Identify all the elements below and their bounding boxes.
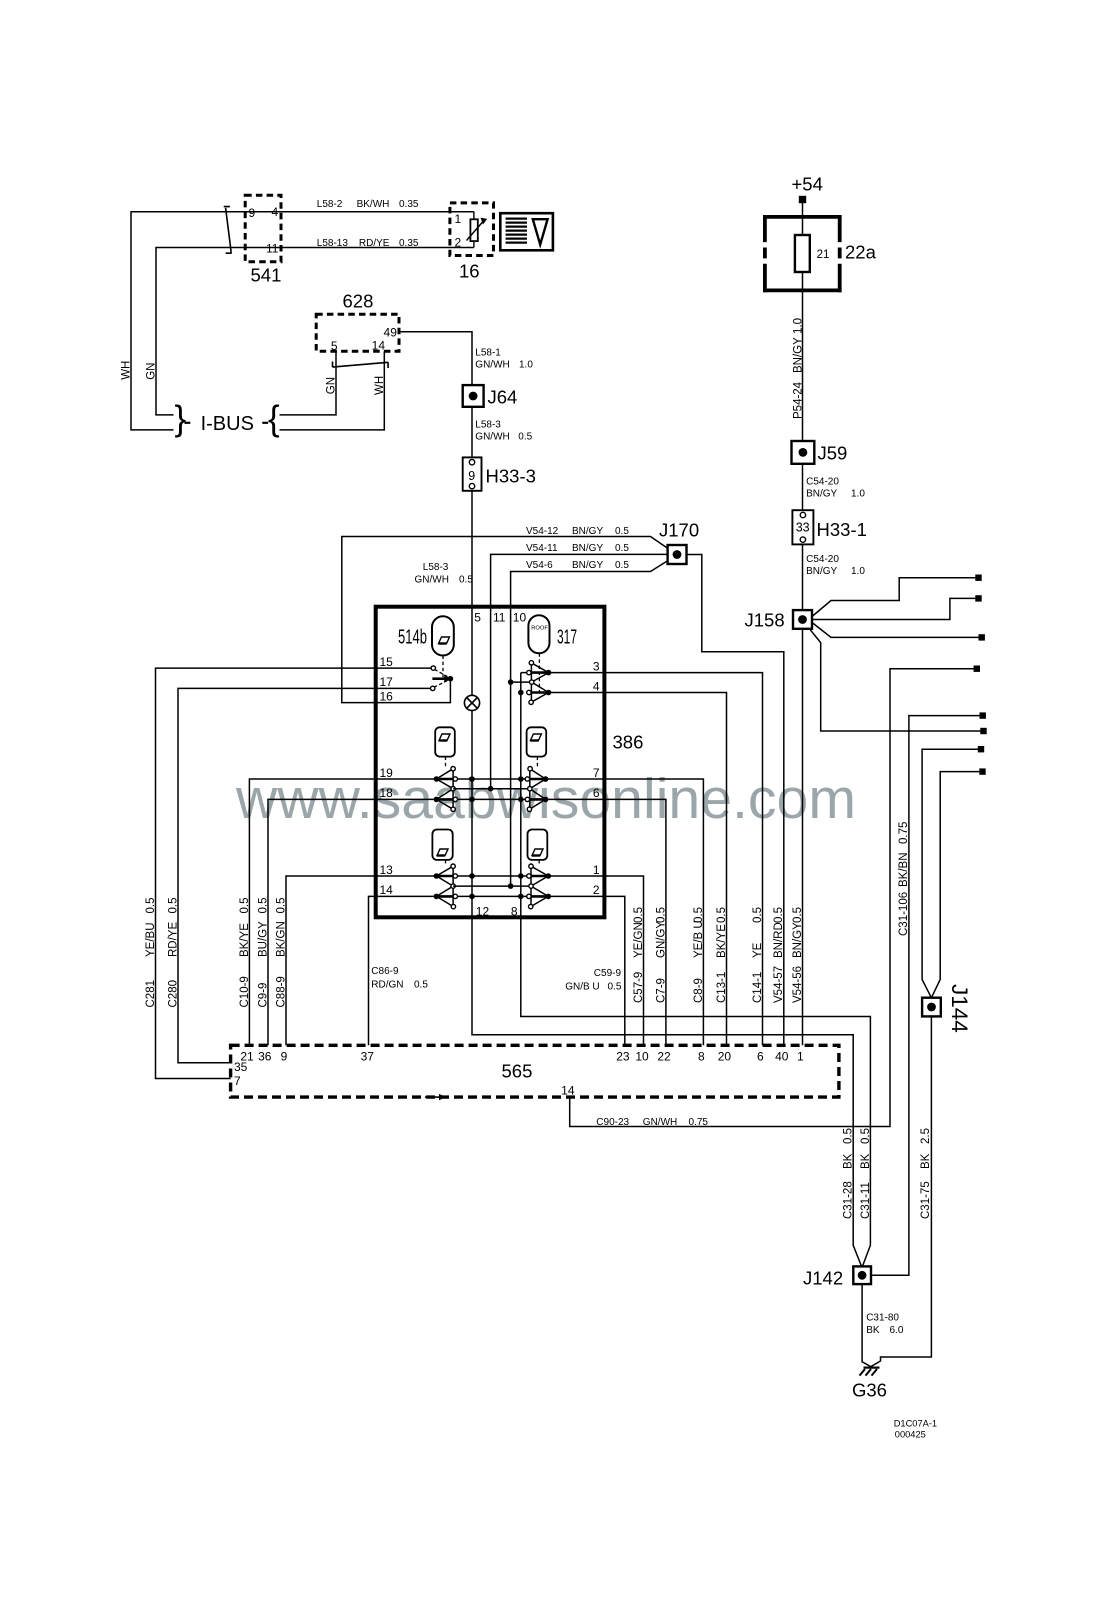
svg-text:BN/GY: BN/GY bbox=[792, 922, 804, 958]
svg-text:C88-9: C88-9 bbox=[276, 976, 288, 1007]
svg-text:18: 18 bbox=[380, 786, 394, 800]
svg-text:15: 15 bbox=[380, 655, 394, 669]
svg-text:C13-1: C13-1 bbox=[716, 972, 728, 1003]
svg-text:0.5: 0.5 bbox=[459, 575, 473, 586]
svg-text:21: 21 bbox=[817, 249, 830, 261]
wire from 628 pin 5 (GN) to I-BUS bbox=[280, 352, 337, 415]
terminal C90-23 bbox=[974, 666, 980, 672]
svg-text:C31-11: C31-11 bbox=[860, 1182, 872, 1219]
svg-text:0.5: 0.5 bbox=[633, 907, 645, 923]
svg-text:20: 20 bbox=[718, 1050, 732, 1064]
svg-text:9: 9 bbox=[281, 1050, 288, 1064]
svg-text:C31-28: C31-28 bbox=[843, 1181, 855, 1219]
svg-text:0.5: 0.5 bbox=[258, 898, 270, 914]
svg-text:RD/YE: RD/YE bbox=[359, 238, 390, 249]
actuator dashed link mid-left bbox=[445, 757, 447, 768]
svg-text:514b: 514b bbox=[398, 627, 427, 649]
svg-text:22: 22 bbox=[657, 1050, 671, 1064]
wire 386 pin 12 to J142 C31-28 BK bbox=[472, 917, 862, 1267]
svg-text:C7-9: C7-9 bbox=[655, 978, 667, 1003]
svg-text:3: 3 bbox=[593, 659, 600, 673]
svg-text:6: 6 bbox=[593, 786, 600, 800]
svg-text:BN/GY: BN/GY bbox=[806, 489, 837, 500]
svg-text:1.0: 1.0 bbox=[851, 566, 865, 577]
svg-text:C280: C280 bbox=[168, 980, 180, 1008]
svg-text:0.5: 0.5 bbox=[615, 543, 629, 554]
svg-text:BK: BK bbox=[860, 1153, 872, 1169]
wire J158 branch 2 to terminal bbox=[812, 598, 977, 619]
svg-text:317: 317 bbox=[557, 627, 577, 649]
svg-text:541: 541 bbox=[251, 265, 282, 286]
svg-text:BN/GY: BN/GY bbox=[572, 560, 603, 571]
svg-text:C86-9: C86-9 bbox=[371, 966, 399, 977]
connector H33-3 bbox=[463, 457, 482, 490]
switch contact 514b pin 15 throw bbox=[431, 666, 435, 670]
svg-text:BK: BK bbox=[920, 1153, 932, 1169]
svg-text:P54-24: P54-24 bbox=[792, 381, 804, 419]
roof switch feed from pin 10 bbox=[511, 681, 530, 683]
svg-text:2: 2 bbox=[593, 883, 600, 897]
switch 514b dashed arms bbox=[435, 669, 450, 677]
svg-text:C57-9: C57-9 bbox=[633, 972, 645, 1003]
svg-text:L58-3: L58-3 bbox=[423, 562, 449, 573]
wire 386 pin 4 to 565 pin 20 C13-1 BK/YE bbox=[549, 693, 727, 1046]
junction J144 bbox=[922, 998, 941, 1017]
svg-text:BK: BK bbox=[843, 1153, 855, 1169]
svg-text:1.0: 1.0 bbox=[519, 360, 533, 371]
svg-text:000425: 000425 bbox=[895, 1430, 926, 1440]
svg-text:6: 6 bbox=[757, 1050, 764, 1064]
svg-text:H33-3: H33-3 bbox=[486, 466, 536, 487]
svg-text:C59-9: C59-9 bbox=[594, 968, 622, 979]
svg-text:0.5: 0.5 bbox=[518, 432, 532, 443]
svg-text:0.5: 0.5 bbox=[414, 980, 428, 991]
svg-text:12: 12 bbox=[476, 904, 490, 918]
svg-text:{: { bbox=[268, 399, 280, 438]
svg-text:1: 1 bbox=[455, 212, 462, 226]
svg-text:V54-11: V54-11 bbox=[526, 543, 558, 554]
junction J64 bbox=[463, 385, 484, 407]
svg-text:GN/WH: GN/WH bbox=[643, 1117, 677, 1128]
junction J59 bbox=[792, 441, 815, 464]
wire from J170 to 565 pin 40 V54-57 BN/RD bbox=[687, 555, 784, 1046]
svg-text:BK/WH: BK/WH bbox=[357, 199, 390, 210]
svg-text:0.5: 0.5 bbox=[168, 898, 180, 914]
relay housing 22a box with gapped sides bbox=[763, 215, 842, 219]
junction dots on rows 19/18 lamp and pin8 columns bbox=[469, 776, 475, 782]
svg-text:5: 5 bbox=[331, 339, 338, 353]
svg-text:J144: J144 bbox=[947, 984, 972, 1033]
wire J158 branch 4 to terminal bbox=[810, 629, 982, 731]
svg-text:J158: J158 bbox=[745, 610, 785, 631]
svg-text:C31-80: C31-80 bbox=[866, 1313, 899, 1324]
svg-text:}: } bbox=[175, 399, 187, 438]
wire BN/GY main stem from +54 down to 565 pin 1 bbox=[802, 203, 804, 1045]
wire 386 pin 8 to J142 C31-11 BK bbox=[521, 917, 871, 1267]
svg-text:4: 4 bbox=[272, 205, 279, 219]
wire WH twisted-pair from 541 pin 9 to I-BUS brace bbox=[131, 212, 474, 430]
switch button 514b pill bbox=[432, 616, 454, 655]
svg-text:ROOF: ROOF bbox=[531, 626, 548, 632]
wire L58-3 GN/WH from J64 to H33-3 bbox=[471, 407, 473, 458]
junction J142 bbox=[853, 1266, 871, 1284]
svg-text:1: 1 bbox=[593, 863, 600, 877]
svg-text:14: 14 bbox=[372, 339, 386, 353]
svg-text:386: 386 bbox=[613, 732, 644, 753]
wire lamp column pin 5 to pin 12 inside 386 bbox=[471, 607, 473, 917]
window lifter switch unit 386 box bbox=[376, 607, 605, 918]
wire row 386 pin 13 to pin 1 and drops to 565 pins 9/10 C88-9 BK/GN C57-9 YE/GN bbox=[286, 876, 644, 1045]
svg-text:17: 17 bbox=[380, 675, 394, 689]
illumination symbol box bbox=[500, 213, 553, 250]
svg-text:GN/WH: GN/WH bbox=[415, 575, 449, 586]
svg-text:BK/YE: BK/YE bbox=[716, 924, 728, 958]
wire C31-106 BK/BN from terminal down to J142 right side bbox=[871, 716, 981, 1276]
svg-text:J142: J142 bbox=[803, 1268, 843, 1289]
wire pin 8 column from roof switch feed bbox=[521, 673, 527, 917]
svg-text:14: 14 bbox=[380, 883, 394, 897]
svg-text:5: 5 bbox=[474, 611, 481, 625]
wire row 386 pin 19 to pin 7 and drops to 565 pins 21/8 C10-9 BK/YE C8-9 YE/BU bbox=[249, 779, 703, 1045]
wire V54-11 BN/GY from 386 pin 11 to J170 bbox=[491, 554, 668, 606]
window icon button mid-right bbox=[527, 727, 547, 756]
terminal J144 right branch bbox=[979, 768, 985, 774]
window icon in 514b bbox=[439, 637, 450, 644]
window icon button mid-left bbox=[435, 727, 455, 756]
svg-text:11: 11 bbox=[493, 611, 506, 625]
svg-text:C14-1: C14-1 bbox=[752, 972, 764, 1003]
rheostat element in 16 bbox=[473, 212, 475, 248]
middle rail rows 13/14 with pin 10 junction bbox=[453, 885, 531, 887]
svg-text:16: 16 bbox=[459, 261, 480, 282]
terminal branch 2 bbox=[975, 595, 981, 601]
switch 514b pivot dot to pin 16 bbox=[377, 679, 451, 703]
wire C90-23 GN/WH from 565 pin 14 to terminal bbox=[570, 669, 975, 1127]
switch contact 514b pin 17 throw bbox=[431, 686, 435, 690]
wire J158 branch 1 to terminal bbox=[812, 578, 977, 617]
svg-text:BU/GY: BU/GY bbox=[258, 921, 270, 957]
terminal square +54 bbox=[799, 196, 806, 203]
wire C31-80 BK 6.0 from J142 to ground G36 bbox=[862, 1284, 871, 1367]
svg-text:49: 49 bbox=[384, 326, 398, 340]
svg-text:10: 10 bbox=[635, 1050, 649, 1064]
wire GN twisted-pair from 541 pin 11 to I-BUS brace bbox=[156, 248, 474, 415]
svg-text:40: 40 bbox=[775, 1050, 789, 1064]
svg-text:0.35: 0.35 bbox=[399, 238, 419, 249]
svg-text:D1C07A-1: D1C07A-1 bbox=[894, 1419, 937, 1429]
svg-text:0.5: 0.5 bbox=[860, 1128, 872, 1144]
wire pin 10 column to bottom middle rail bbox=[510, 607, 512, 886]
svg-text:WH: WH bbox=[120, 361, 132, 380]
wire row 386 pin 18 to pin 6 and drops to 565 pins 36/22 C9-9 BU/GY C7-9 GN/GY bbox=[268, 799, 666, 1045]
svg-text:0.5: 0.5 bbox=[773, 907, 785, 923]
svg-text:GN/WH: GN/WH bbox=[475, 432, 509, 443]
actuator dashed link bottom-right bbox=[538, 860, 540, 865]
svg-text:YE/B U: YE/B U bbox=[693, 920, 705, 958]
wire into J144 right from terminal bbox=[931, 772, 980, 998]
svg-text:C8-9: C8-9 bbox=[693, 978, 705, 1003]
svg-text:L58-13: L58-13 bbox=[317, 238, 349, 249]
svg-text:0.35: 0.35 bbox=[399, 199, 419, 210]
svg-text:0.5: 0.5 bbox=[145, 898, 157, 914]
svg-text:G36: G36 bbox=[852, 1380, 887, 1401]
svg-text:GN: GN bbox=[326, 377, 338, 394]
switch cluster rows 19/18 left bbox=[436, 769, 453, 810]
svg-text:0.5: 0.5 bbox=[792, 907, 804, 923]
fuse 21 inside 22a bbox=[795, 235, 810, 272]
svg-text:6.0: 6.0 bbox=[890, 1325, 904, 1336]
junction dots on rows 13/14 lamp and pin8 columns bbox=[469, 873, 475, 879]
wire 386 pin 3 to 565 pin 6 C14-1 YE bbox=[549, 673, 763, 1046]
svg-text:C90-23: C90-23 bbox=[596, 1117, 629, 1128]
svg-text:YE/BU: YE/BU bbox=[145, 922, 157, 957]
svg-text:4: 4 bbox=[593, 679, 600, 693]
svg-text:10: 10 bbox=[513, 611, 527, 625]
svg-text:BK/GN: BK/GN bbox=[276, 921, 288, 957]
svg-text:YE/GN: YE/GN bbox=[633, 922, 645, 958]
actuator dashed link mid-right bbox=[536, 757, 538, 768]
terminal branch 1 bbox=[975, 575, 981, 581]
wire V54-6 BN/GY from 386 pin 10 to J170 bbox=[511, 561, 668, 607]
svg-text:GN/WH: GN/WH bbox=[475, 360, 509, 371]
svg-text:BN/GY: BN/GY bbox=[572, 526, 603, 537]
svg-text:1.0: 1.0 bbox=[851, 489, 865, 500]
svg-text:37: 37 bbox=[361, 1050, 375, 1064]
svg-text:19: 19 bbox=[380, 766, 394, 780]
svg-text:1.0: 1.0 bbox=[792, 318, 804, 334]
switch cluster rows 7/6 right bbox=[529, 769, 545, 810]
svg-text:11: 11 bbox=[266, 242, 279, 256]
svg-text:J59: J59 bbox=[818, 443, 848, 464]
svg-text:YE: YE bbox=[752, 942, 764, 958]
connector H33-1 bbox=[792, 510, 813, 544]
window icon button bottom-right bbox=[528, 830, 548, 860]
svg-text:8: 8 bbox=[698, 1050, 705, 1064]
svg-text:0.75: 0.75 bbox=[689, 1117, 709, 1128]
svg-text:23: 23 bbox=[616, 1050, 630, 1064]
svg-text:0.5: 0.5 bbox=[752, 907, 764, 923]
svg-text:C31-75: C31-75 bbox=[920, 1181, 932, 1219]
svg-text:GN: GN bbox=[146, 363, 158, 380]
svg-text:L58-1: L58-1 bbox=[475, 348, 501, 359]
svg-text:35: 35 bbox=[234, 1060, 248, 1074]
dimmer rheostat 16 dashed box bbox=[450, 203, 494, 256]
wire J158 branch 3 to terminal bbox=[812, 623, 980, 638]
svg-text:7: 7 bbox=[593, 766, 600, 780]
actuator dashed link bottom-left bbox=[445, 860, 447, 865]
svg-text:WH: WH bbox=[374, 376, 386, 395]
svg-text:9: 9 bbox=[249, 206, 256, 220]
svg-text:C10-9: C10-9 bbox=[239, 976, 251, 1007]
arrow marker on 565 bottom edge bbox=[425, 1096, 440, 1098]
switch cluster rows 1/2 right bbox=[531, 866, 549, 906]
svg-text:BK/BN: BK/BN bbox=[898, 852, 910, 887]
svg-text:I-BUS: I-BUS bbox=[201, 413, 254, 435]
bus connector 628 dashed box bbox=[316, 314, 399, 351]
svg-text:J64: J64 bbox=[488, 387, 518, 408]
svg-text:0.5: 0.5 bbox=[239, 898, 251, 914]
svg-text:9: 9 bbox=[468, 469, 475, 483]
svg-text:GN/GY: GN/GY bbox=[655, 921, 667, 958]
svg-text:0.5: 0.5 bbox=[716, 907, 728, 923]
svg-text:0.5: 0.5 bbox=[615, 560, 629, 571]
svg-text:L58-2: L58-2 bbox=[317, 199, 343, 210]
svg-text:C9-9: C9-9 bbox=[258, 983, 270, 1008]
wire 386 pin 15 to 565 pin 7 C281 YE/BU bbox=[156, 668, 434, 1078]
svg-text:14: 14 bbox=[561, 1084, 575, 1098]
wire L58-3 GN/WH from H33-3 to 386 pin 5 bbox=[471, 491, 473, 607]
junction J170 bbox=[668, 545, 687, 564]
svg-text:GN/B U: GN/B U bbox=[565, 982, 599, 993]
terminal branch 3 bbox=[979, 634, 985, 640]
wire V54-12 BN/GY from 386 pin 16 to J170 bbox=[342, 537, 668, 703]
svg-text:0.75: 0.75 bbox=[898, 822, 910, 844]
wire C31-75 BK 2.5 from J144 to ground G36 bbox=[871, 1016, 932, 1366]
wire into J144 left from terminal bbox=[922, 749, 979, 998]
svg-text:33: 33 bbox=[796, 521, 810, 535]
svg-text:BK/YE: BK/YE bbox=[239, 923, 251, 957]
switch 514b wiper arrow bbox=[432, 677, 445, 680]
illumination triangle bbox=[533, 219, 548, 244]
svg-text:BN/RD: BN/RD bbox=[773, 922, 785, 958]
svg-text:BN/GY: BN/GY bbox=[572, 543, 603, 554]
svg-text:BN/GY: BN/GY bbox=[792, 337, 804, 373]
switch cluster rows 13/14 left bbox=[436, 866, 453, 906]
svg-text:V54-57: V54-57 bbox=[773, 966, 785, 1003]
svg-text:+54: +54 bbox=[792, 174, 823, 195]
svg-text:628: 628 bbox=[343, 291, 374, 312]
wire L58-1 GN/WH from 628 pin 49 to J64 bbox=[399, 332, 472, 385]
svg-text:C54-20: C54-20 bbox=[806, 477, 839, 488]
svg-text:C54-20: C54-20 bbox=[806, 554, 839, 565]
svg-text:BK: BK bbox=[866, 1325, 880, 1336]
svg-text:C281: C281 bbox=[145, 980, 157, 1008]
middle rail rows 19/18 with pin 11 junction bbox=[453, 788, 530, 790]
terminal J144 left branch bbox=[978, 746, 984, 752]
svg-text:0.5: 0.5 bbox=[655, 907, 667, 923]
svg-text:36: 36 bbox=[258, 1050, 272, 1064]
illumination lamp in 386 bbox=[464, 695, 479, 710]
svg-text:0.5: 0.5 bbox=[615, 526, 629, 537]
junction J158 bbox=[793, 610, 812, 629]
svg-text:2.5: 2.5 bbox=[920, 1128, 932, 1144]
actuator dashed link 514b bbox=[442, 656, 444, 678]
svg-text:0.5: 0.5 bbox=[693, 907, 705, 923]
switch button 317 pill ROOF bbox=[528, 615, 549, 653]
actuator dashed link 317 bbox=[538, 653, 540, 691]
twisted-pair marker left of connector 541 bbox=[224, 207, 232, 254]
svg-text:0.5: 0.5 bbox=[843, 1128, 855, 1144]
svg-text:0.5: 0.5 bbox=[608, 982, 622, 993]
svg-text:BN/GY: BN/GY bbox=[806, 566, 837, 577]
connector 565 dashed box bbox=[231, 1045, 839, 1097]
svg-text:0.5: 0.5 bbox=[276, 898, 288, 914]
svg-text:RD/GN: RD/GN bbox=[371, 980, 403, 991]
terminal C31-106 bbox=[980, 712, 986, 718]
wire from 628 pin 14 (WH) to I-BUS bbox=[280, 352, 385, 430]
svg-text:13: 13 bbox=[380, 863, 394, 877]
wire pin 11 column to middle rail bbox=[490, 607, 492, 789]
wire row 386 pin 14 to pin 2 and drops to 565 pins 37/23 C86-9 RD/GN C59-9 GN/BU bbox=[369, 896, 625, 1045]
connector 541 dashed box bbox=[245, 195, 281, 262]
ground symbol G36 bbox=[864, 1366, 880, 1368]
svg-text:J170: J170 bbox=[659, 520, 699, 541]
terminal branch 4 bbox=[980, 728, 986, 734]
svg-text:2: 2 bbox=[455, 235, 462, 249]
svg-text:565: 565 bbox=[502, 1061, 533, 1082]
svg-text:L58-3: L58-3 bbox=[475, 420, 501, 431]
svg-text:22a: 22a bbox=[845, 242, 877, 263]
svg-text:RD/YE: RD/YE bbox=[168, 922, 180, 957]
wire 386 pin 17 to 565 pin 35 C280 RD/YE bbox=[178, 688, 433, 1062]
illumination hatch block bbox=[506, 218, 527, 220]
svg-text:1: 1 bbox=[797, 1050, 804, 1064]
svg-text:7: 7 bbox=[234, 1074, 241, 1088]
svg-text:C31-106: C31-106 bbox=[898, 892, 910, 936]
svg-text:V54-6: V54-6 bbox=[526, 560, 553, 571]
svg-text:8: 8 bbox=[511, 904, 518, 918]
window icon button bottom-left bbox=[432, 830, 452, 860]
roof switch triangles rows 3 and 4 bbox=[531, 663, 548, 703]
svg-text:V54-12: V54-12 bbox=[526, 526, 559, 537]
svg-text:V54-56: V54-56 bbox=[792, 966, 804, 1003]
svg-text:16: 16 bbox=[380, 689, 394, 703]
svg-text:H33-1: H33-1 bbox=[817, 519, 867, 540]
twisted-pair marker under 628 bbox=[333, 362, 389, 369]
